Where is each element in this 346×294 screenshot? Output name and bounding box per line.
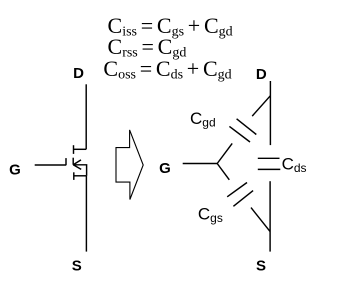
block arrow (transform symbol) <box>116 130 143 200</box>
capacitor Cds plate (source side) <box>258 168 281 170</box>
wire: body shaft to source <box>73 165 86 176</box>
wire: right source rail <box>269 181 271 251</box>
transistor Q1 body bar <box>72 158 74 165</box>
wire: gate lead <box>35 164 66 166</box>
wire: Cgd to drain rail <box>252 96 270 116</box>
svg-text:Cgs: Cgs <box>198 205 223 226</box>
transistor Q1 gate bar <box>65 158 67 165</box>
svg-text:G: G <box>9 162 21 179</box>
wire: left source lead <box>85 176 87 252</box>
svg-text:D: D <box>73 65 84 82</box>
wire: right drain rail <box>269 81 271 145</box>
svg-text:Cgd: Cgd <box>190 109 216 130</box>
wire: drain horizontal <box>74 148 87 150</box>
wire: right gate lead <box>183 163 218 165</box>
transistor Q1 source contact bar <box>73 172 75 180</box>
svg-text:S: S <box>72 258 82 275</box>
wire: gate node to Cgd <box>217 143 232 163</box>
capacitor Cds plate (drain side) <box>258 157 280 159</box>
svg-text:G: G <box>159 160 171 177</box>
capacitor Cgs plate (source side) <box>233 191 253 207</box>
capacitor Cgs plate (gate side) <box>227 183 247 197</box>
svg-text:S: S <box>256 258 266 275</box>
capacitor Cgd plate (gate side) <box>229 126 250 142</box>
svg-text:D: D <box>256 66 267 83</box>
capacitor Cgd plate (drain side) <box>237 119 257 135</box>
transistor Q1 drain contact bar <box>73 145 75 154</box>
svg-text:Cds: Cds <box>282 154 307 175</box>
wire: source horizontal <box>74 175 87 177</box>
wire: Cgs to source rail <box>251 208 270 232</box>
transistor Q1 body arrow <box>73 160 81 170</box>
wire: left drain lead <box>85 84 87 149</box>
wire: gate node to Cgs <box>217 164 229 180</box>
